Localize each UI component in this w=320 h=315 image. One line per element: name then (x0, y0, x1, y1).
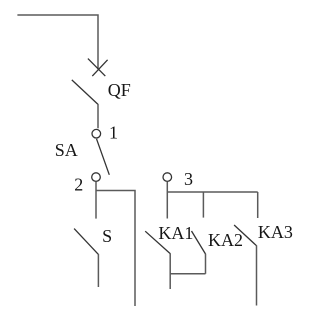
wire KA3 top lead (257, 192, 259, 218)
node 1 (92, 129, 101, 138)
svg-text:3: 3 (184, 169, 193, 189)
wire from node 3 down (166, 182, 168, 219)
switch S blade (74, 229, 98, 255)
wire bus feeding KA2 and KA3 (167, 191, 257, 193)
svg-text:1: 1 (109, 123, 118, 143)
svg-text:KA1: KA1 (158, 223, 193, 243)
wire: KA3 lower lead (256, 245, 258, 305)
svg-text:QF: QF (108, 80, 131, 100)
svg-text:S: S (102, 226, 112, 246)
relay contact KA3 blade (234, 225, 256, 246)
wire KA2 top lead (202, 192, 204, 218)
wire: KA2 lower lead (205, 254, 207, 274)
node 2 (92, 173, 101, 182)
wire: S lower lead (97, 254, 99, 287)
wire branch from node 2 lead to long right drop (96, 191, 135, 307)
breaker cross mark of QF (88, 59, 108, 77)
svg-text:KA2: KA2 (208, 230, 243, 250)
relay contact KA2 blade (192, 231, 206, 254)
wire: QF lower lead (97, 104, 99, 128)
wire from node 2 down (95, 182, 97, 219)
wire linking KA1 and KA2 bottoms (170, 273, 205, 275)
node 3 (163, 173, 172, 182)
svg-text:2: 2 (74, 175, 83, 195)
wire: incoming supply top horizontal and corner down (17, 15, 98, 69)
relay contact KA1 blade (145, 231, 170, 253)
selector switch SA blade from node 1 (97, 139, 110, 175)
wire: KA1 lower lead (169, 253, 171, 289)
svg-text:KA3: KA3 (258, 222, 293, 242)
circuit breaker QF blade (72, 80, 98, 105)
svg-text:SA: SA (55, 140, 78, 160)
